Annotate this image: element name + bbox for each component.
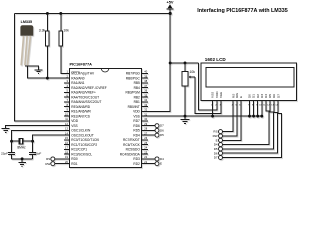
svg-text:E: E	[239, 96, 243, 98]
svg-text:RB7/PGD: RB7/PGD	[126, 72, 141, 76]
svg-text:RC6/TX/CK: RC6/TX/CK	[123, 143, 141, 147]
svg-text:RA1/AN1: RA1/AN1	[71, 81, 85, 85]
svg-text:RE0/AN5/RD: RE0/AN5/RD	[71, 105, 90, 109]
svg-text:RE1/AN6/WR: RE1/AN6/WR	[71, 110, 91, 114]
wire +5V vertical to PIC VDD pin32	[148, 14, 170, 112]
svg-text:RB1: RB1	[134, 100, 140, 104]
pin stub left row 12	[64, 125, 148, 127]
svg-text:RB4: RB4	[134, 86, 140, 90]
svg-text:RD6: RD6	[133, 124, 140, 128]
svg-text:RC2/CCP1: RC2/CCP1	[71, 148, 87, 152]
node net D7 (PIC side)	[148, 125, 155, 127]
svg-text:10k: 10k	[63, 29, 69, 33]
pin stub left row 16	[64, 144, 148, 146]
wire LCD D7 to net circle	[222, 100, 281, 157]
capacitor C1 22pF	[8, 141, 15, 159]
pin stub left row 5	[64, 91, 148, 93]
svg-text:RC5/SDO: RC5/SDO	[126, 148, 141, 152]
pin stub left row 7	[64, 101, 148, 103]
wire caps to ground	[12, 159, 33, 166]
node net D5 (LCD side)	[219, 147, 223, 151]
svg-text:Interfacing PIC16F877A with LM: Interfacing PIC16F877A with LM335	[197, 8, 288, 14]
LCD screen	[206, 68, 294, 88]
wire LCD D6 to net circle	[222, 100, 277, 153]
wire OSC2 to crystal	[33, 135, 70, 141]
svg-text:RS: RS	[46, 157, 50, 161]
svg-text:RC3/SCK/SCL: RC3/SCK/SCL	[71, 152, 92, 156]
svg-text:RD3: RD3	[133, 157, 140, 161]
node net D7 (LCD side)	[219, 156, 223, 160]
svg-text:OSC2/CLKOUT: OSC2/CLKOUT	[71, 133, 94, 137]
resistor RV1 10k (LCD contrast)	[184, 63, 186, 116]
svg-text:RA3/AN3/VREF+: RA3/AN3/VREF+	[71, 91, 96, 95]
node +5V junction	[169, 12, 172, 15]
svg-text:D7: D7	[276, 94, 280, 98]
wire +5V branch to pot top and LCD VDD	[170, 62, 198, 64]
svg-text:RB3/PGM: RB3/PGM	[125, 91, 140, 95]
svg-text:RA5/AN4/SS/C2OUT: RA5/AN4/SS/C2OUT	[71, 100, 101, 104]
wire LCD RW to net circle	[222, 100, 237, 135]
svg-text:E: E	[160, 162, 162, 166]
ground rail under LCD	[148, 115, 262, 117]
wire VEE from pot tap to LCD pin3	[195, 77, 221, 113]
svg-text:10k: 10k	[190, 70, 196, 74]
wire OSC1 to crystal	[12, 130, 70, 141]
pin stub left row 2	[64, 77, 148, 79]
svg-text:RC4/SDI/SDA: RC4/SDI/SDA	[120, 152, 141, 156]
svg-text:RC0/T1OSO/T1CKI: RC0/T1OSO/T1CKI	[71, 138, 99, 142]
node net E (LCD side)	[219, 138, 223, 142]
ground symbol below rail	[181, 116, 190, 123]
svg-text:RD7: RD7	[133, 119, 140, 123]
wire LCD D4 to net circle	[222, 100, 269, 144]
pin stub left row 8	[64, 106, 148, 108]
wire LCD D3 to ground rail	[261, 100, 263, 116]
crystal X1 8MHz	[12, 138, 33, 145]
svg-text:RD4: RD4	[133, 133, 140, 137]
pin stub left row 18	[64, 153, 148, 155]
svg-text:RB2: RB2	[134, 95, 140, 99]
wire +5V top rail	[14, 13, 170, 15]
node net RW (PIC RD1)	[55, 163, 64, 165]
svg-text:PIC16F877A: PIC16F877A	[70, 61, 93, 66]
svg-text:RE2/AN7/CS: RE2/AN7/CS	[71, 114, 90, 118]
node net D6 (LCD side)	[219, 151, 223, 155]
svg-text:VDD: VDD	[133, 110, 140, 114]
pin stub left row 11	[64, 120, 148, 122]
LM335 U2 body	[20, 25, 33, 36]
node net E (PIC side)	[148, 163, 155, 165]
svg-text:1602 LCD: 1602 LCD	[205, 57, 227, 62]
node branch to pot and LCD VDD	[169, 62, 172, 65]
svg-text:LM335: LM335	[21, 20, 32, 24]
svg-text:D4: D4	[160, 157, 164, 161]
svg-text:22pF: 22pF	[1, 152, 8, 156]
svg-text:RA2/AN2/VREF-/CVREF: RA2/AN2/VREF-/CVREF	[71, 86, 106, 90]
wire LCD D1 to ground rail	[253, 100, 255, 116]
wire LCD D2 to ground rail	[257, 100, 259, 116]
pin stub left row 1	[64, 72, 148, 74]
resistor R1 3.3k	[46, 12, 49, 15]
wire LCD D0 to ground rail	[249, 100, 251, 116]
wire LCD VSS pin1 to ground rail	[212, 100, 214, 116]
svg-text:RA4/T0CKI/C1OUT: RA4/T0CKI/C1OUT	[71, 95, 99, 99]
U1 notch	[101, 69, 109, 72]
pin stub left row 6	[64, 96, 148, 98]
svg-text:RD1: RD1	[71, 162, 78, 166]
svg-text:RD5: RD5	[133, 129, 140, 133]
wire VSS pin12 to ground	[2, 126, 70, 133]
svg-text:RA0/AN0: RA0/AN0	[71, 76, 85, 80]
node net RS (LCD side)	[219, 130, 223, 134]
svg-text:MCLR/Vpp/THV: MCLR/Vpp/THV	[71, 72, 95, 76]
svg-text:VDD: VDD	[71, 119, 78, 123]
svg-text:VSS: VSS	[71, 124, 77, 128]
svg-text:22pF: 22pF	[34, 152, 41, 156]
pin stub left row 15	[64, 139, 148, 141]
node net D4 (PIC side)	[148, 158, 155, 160]
pin stub left row 19	[64, 158, 148, 160]
ground at LM335	[25, 66, 43, 73]
svg-text:+5V: +5V	[166, 0, 173, 5]
resistor R2 10k	[59, 12, 62, 15]
node net D4 (LCD side)	[219, 143, 223, 147]
svg-text:RC7/RX/DT: RC7/RX/DT	[123, 138, 140, 142]
svg-text:8MHz: 8MHz	[17, 145, 26, 149]
MCLR overline	[71, 71, 79, 73]
wire VDD to LCD pin2	[199, 63, 217, 110]
wire LCD D5 to net circle	[222, 100, 273, 148]
svg-text:D7: D7	[160, 124, 164, 128]
pin stub left row 4	[64, 87, 148, 89]
pin stub left row 13	[64, 129, 148, 131]
node net D6 (PIC side)	[148, 129, 155, 131]
PIC16F877A U1 body	[70, 69, 142, 168]
svg-text:RD2: RD2	[133, 162, 140, 166]
svg-text:RB5: RB5	[134, 81, 140, 85]
+5V power symbol	[167, 4, 174, 13]
svg-text:OSC1/CLKIN: OSC1/CLKIN	[71, 129, 91, 133]
LCD module box	[201, 63, 297, 100]
pin stub left row 9	[64, 110, 148, 112]
svg-text:VSS: VSS	[133, 114, 139, 118]
pin stub left row 14	[64, 134, 148, 136]
wire VDD pin11 feed (left rail)	[14, 14, 69, 121]
svg-text:D5: D5	[160, 133, 164, 137]
svg-text:RW: RW	[213, 134, 218, 138]
svg-text:D7: D7	[214, 156, 218, 160]
wire LM335 output to RA0	[27, 66, 69, 79]
svg-text:3.3k: 3.3k	[39, 29, 46, 33]
svg-text:RB6/PGC: RB6/PGC	[126, 76, 141, 80]
svg-text:RC1/T1OSI/CCP2: RC1/T1OSI/CCP2	[71, 143, 97, 147]
svg-text:D6: D6	[160, 128, 164, 132]
LM335 legs	[21, 36, 30, 66]
node net RW (LCD side)	[219, 134, 223, 138]
wire LCD E to net circle	[222, 100, 241, 140]
node net D5 (PIC side)	[148, 134, 155, 136]
pin stub left row 10	[64, 115, 148, 117]
node net RS (PIC RD0)	[55, 158, 64, 160]
pin stub left row 3	[64, 82, 148, 84]
pin stub left row 17	[64, 148, 148, 150]
capacitor C2 22pF	[29, 141, 36, 159]
svg-text:RB0/INT: RB0/INT	[128, 105, 140, 109]
pin stub left row 20	[64, 163, 148, 165]
svg-text:RW: RW	[45, 162, 50, 166]
wire LCD RS to net circle	[222, 100, 233, 131]
svg-text:VEE: VEE	[219, 92, 223, 98]
svg-text:RD0: RD0	[71, 157, 78, 161]
